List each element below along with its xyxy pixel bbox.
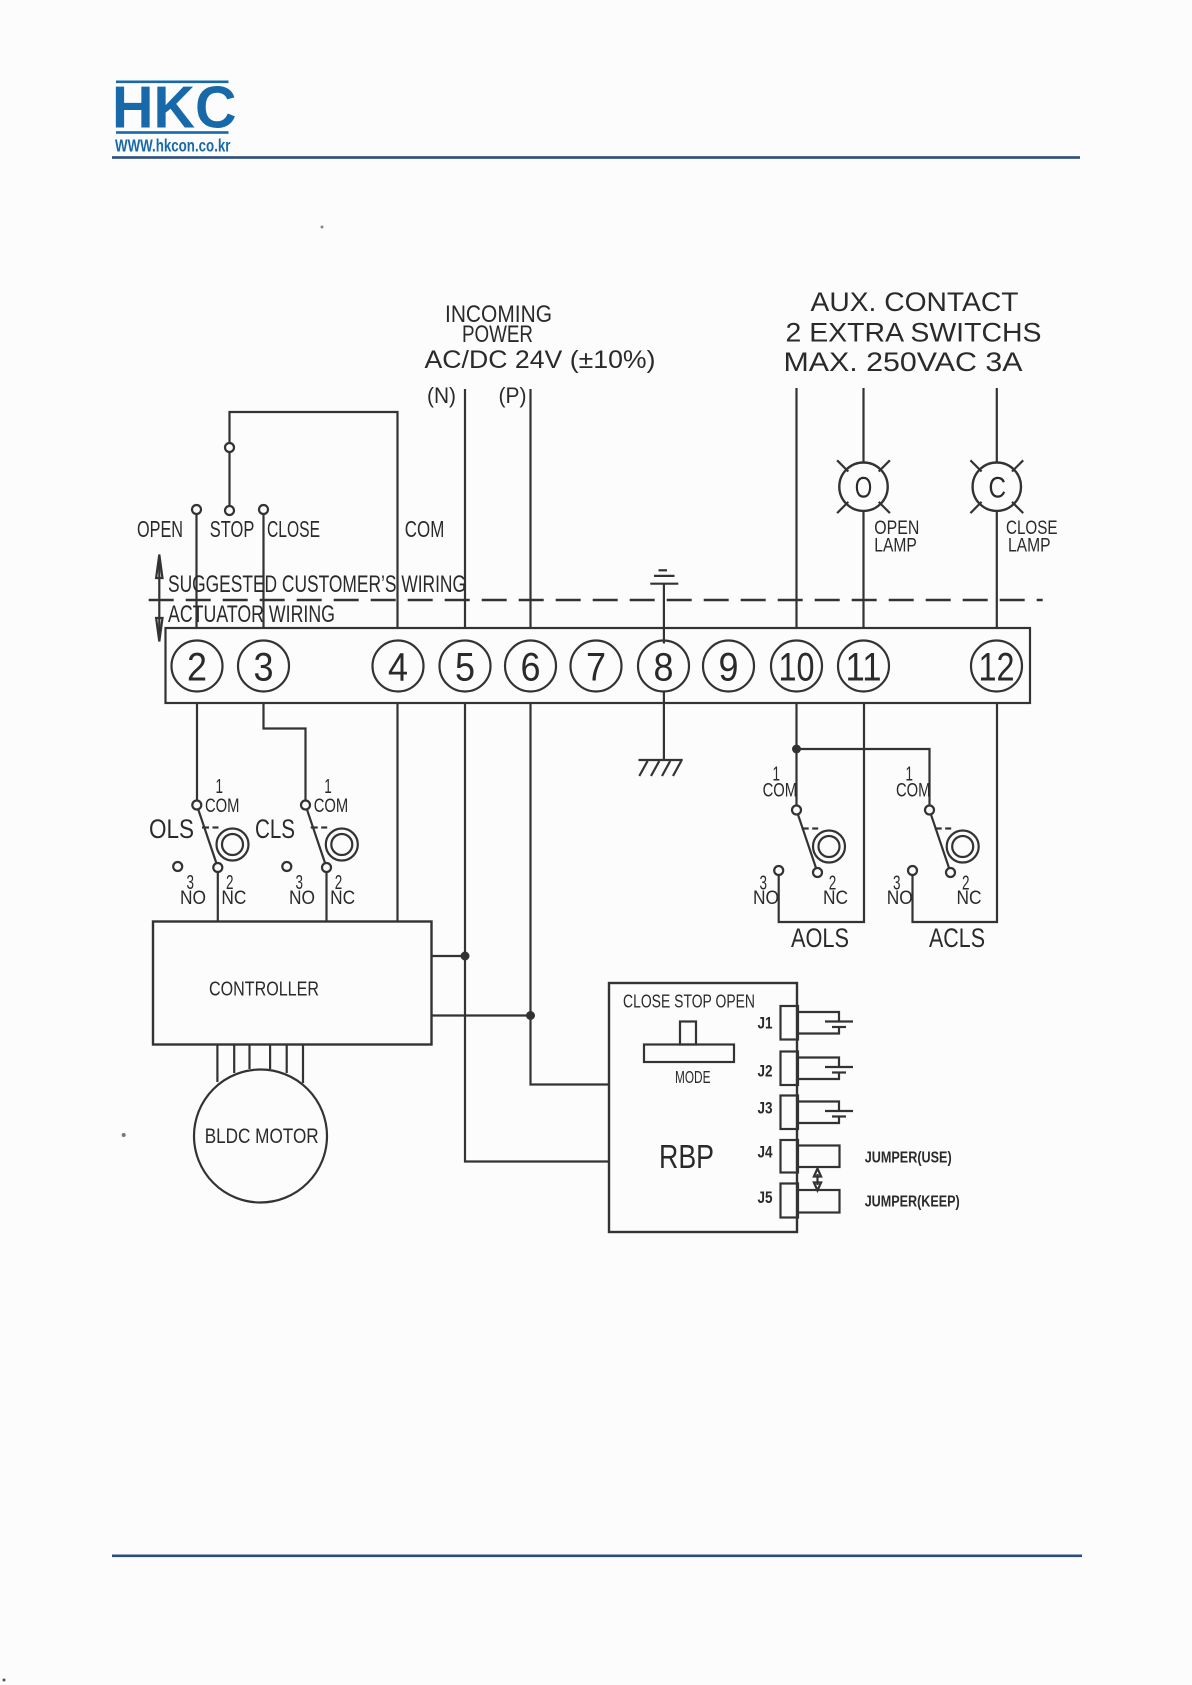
svg-text:JUMPER(KEEP): JUMPER(KEEP) [865, 1194, 960, 1211]
svg-text:OPEN: OPEN [137, 516, 183, 542]
connector J4 header [781, 1140, 799, 1173]
ground earth symbol above terminal 8 [650, 570, 678, 643]
terminal 5 [440, 641, 491, 692]
logo top rule [116, 81, 229, 84]
svg-text:J4: J4 [758, 1142, 773, 1161]
logo bottom rule [116, 131, 229, 134]
node junction N controller [462, 953, 469, 960]
jumper cap on J5 [798, 1190, 840, 1213]
connector J1 header [781, 1006, 799, 1040]
battery B2 on J2 [798, 1058, 853, 1080]
jumper move arrow [814, 1169, 821, 1191]
label OLS pins [180, 776, 246, 909]
wire terminal 8 to chassis ground [663, 692, 665, 760]
svg-text:COM: COM [405, 516, 445, 542]
svg-text:SUGGESTED CUSTOMER’S WIRING: SUGGESTED CUSTOMER’S WIRING [168, 571, 466, 598]
svg-text:ACTUATOR WIRING: ACTUATOR WIRING [168, 601, 335, 628]
svg-text:3: 3 [254, 646, 274, 690]
wire OPEN to terminal 2 [195, 514, 197, 629]
wire terminal 5 (N) down to RBP [465, 703, 609, 1162]
svg-text:5: 5 [455, 646, 475, 690]
svg-text:MAX. 250VAC 3A: MAX. 250VAC 3A [784, 347, 1023, 377]
battery B3 on J3 [798, 1102, 853, 1124]
svg-text:6: 6 [521, 646, 541, 690]
wire aux to open lamp [862, 388, 864, 463]
switch STOP lower contact [225, 506, 234, 515]
terminal 8 [638, 641, 689, 692]
svg-text:BLDC MOTOR: BLDC MOTOR [205, 1125, 319, 1148]
page bottom rule [112, 1555, 1082, 1558]
svg-text:2: 2 [187, 646, 207, 690]
page top rule [112, 156, 1080, 159]
terminal 4 [373, 641, 424, 692]
svg-text:11: 11 [846, 646, 882, 690]
label CLOSE LAMP [1006, 518, 1058, 557]
wire junction to ACLS COM [797, 749, 930, 806]
wire controller to P junction [432, 1014, 531, 1016]
wire terminal 3 to CLS COM [264, 703, 306, 801]
node OPEN pushbutton contact [192, 505, 201, 514]
svg-text:4: 4 [388, 646, 408, 690]
svg-text:NC: NC [957, 887, 982, 909]
svg-text:NC: NC [221, 887, 246, 909]
node junction P controller [527, 1012, 534, 1019]
wire CLOSE to terminal 3 [262, 514, 264, 629]
connector J3 header [781, 1096, 799, 1130]
connector J2 header [781, 1052, 799, 1086]
svg-text:RBP: RBP [659, 1139, 714, 1176]
terminal 10 [771, 641, 822, 692]
wire terminal 2 to OLS COM [196, 703, 198, 801]
svg-text:2 EXTRA SWITCHS: 2 EXTRA SWITCHS [786, 318, 1042, 348]
label AUX CONTACT heading [784, 287, 1042, 377]
terminal 11 [838, 641, 889, 692]
node junction AOLS [793, 746, 800, 753]
controller U1 box [153, 922, 432, 1045]
wire top horizontal customer bus [230, 412, 398, 629]
svg-text:AUX. CONTACT: AUX. CONTACT [811, 287, 1019, 317]
wire close lamp to terminal 12 [996, 511, 998, 629]
svg-text:JUMPER(USE): JUMPER(USE) [865, 1150, 952, 1167]
svg-text:O: O [855, 472, 873, 505]
svg-text:MODE: MODE [675, 1067, 711, 1087]
wire OLS NC to controller [217, 872, 219, 923]
wire terminal 4 to controller [396, 703, 398, 923]
svg-text:ACLS: ACLS [929, 923, 985, 953]
svg-text:AOLS: AOLS [791, 923, 849, 953]
svg-text:J3: J3 [758, 1098, 773, 1117]
svg-text:OLS: OLS [149, 814, 194, 844]
wire (N) to terminal 5 [464, 389, 466, 629]
wire aux to close lamp [996, 388, 998, 463]
lamp OPEN LAMP [837, 460, 890, 513]
wire controller to motor leads [217, 1045, 303, 1084]
terminal 12 [971, 641, 1022, 692]
module RBP box [609, 983, 797, 1232]
terminal 9 [703, 641, 754, 692]
label CLS pins [289, 776, 355, 909]
svg-text:COM: COM [205, 795, 240, 817]
svg-text:7: 7 [586, 646, 606, 690]
lamp CLOSE LAMP [970, 460, 1023, 513]
svg-text:(P): (P) [499, 383, 527, 408]
svg-text:NC: NC [330, 887, 355, 909]
svg-text:10: 10 [779, 646, 815, 690]
terminal 6 [505, 641, 556, 692]
svg-text:CLS: CLS [255, 814, 295, 844]
speck left margin [122, 1133, 126, 1137]
svg-text:LAMP: LAMP [874, 536, 917, 557]
wire aux contact to terminal 10 [795, 388, 797, 629]
svg-text:LAMP: LAMP [1008, 536, 1051, 557]
svg-text:J2: J2 [758, 1061, 773, 1080]
svg-text:COM: COM [314, 795, 349, 817]
label INCOMING POWER heading [425, 301, 656, 374]
speck upper area [321, 226, 324, 229]
battery B1 on J1 [798, 1012, 853, 1034]
limit switch CLS [282, 801, 358, 873]
wire ACLS NO to terminal 12 [913, 703, 998, 922]
svg-text:NC: NC [823, 887, 848, 909]
svg-text:COM: COM [896, 780, 931, 802]
svg-text:AC/DC 24V (±10%): AC/DC 24V (±10%) [425, 346, 656, 374]
wire dashed wiring boundary [149, 599, 1043, 601]
label AOLS pins [753, 764, 848, 909]
svg-text:HKC: HKC [112, 75, 237, 141]
svg-text:CONTROLLER: CONTROLLER [209, 979, 319, 1001]
switch MODE selector [644, 1022, 734, 1063]
svg-text:12: 12 [979, 646, 1015, 690]
wire controller to N junction [432, 955, 466, 957]
terminal 3 [238, 641, 289, 692]
svg-text:WWW.hkcon.co.kr: WWW.hkcon.co.kr [115, 135, 231, 155]
svg-text:COM: COM [763, 780, 798, 802]
switch STOP blade [228, 452, 230, 506]
svg-text:J5: J5 [758, 1188, 773, 1207]
svg-text:8: 8 [654, 646, 674, 690]
speck bottom left [3, 1679, 6, 1682]
aux switch ACLS [908, 806, 979, 878]
wire (P) to terminal 6 [529, 389, 531, 629]
terminal strip box [166, 628, 1031, 703]
label ACLS pins [887, 764, 982, 909]
boundary double arrow [156, 555, 162, 642]
terminal 7 [571, 641, 622, 692]
svg-text:NO: NO [289, 887, 315, 909]
limit switch OLS [173, 801, 248, 873]
wire open lamp to terminal 11 [862, 511, 864, 629]
svg-text:NO: NO [180, 887, 206, 909]
terminal 2 [172, 641, 223, 692]
connector J5 header [781, 1184, 799, 1218]
wire AOLS NO to terminal 11 [779, 703, 864, 922]
svg-text:9: 9 [719, 646, 739, 690]
svg-text:CLOSE: CLOSE [267, 516, 320, 542]
motor M1 BLDC [194, 1070, 327, 1203]
wire terminal 10 to AOLS COM [795, 703, 797, 806]
label OPEN LAMP [874, 518, 919, 557]
svg-text:(N): (N) [427, 383, 456, 408]
svg-text:J1: J1 [758, 1014, 773, 1033]
ground chassis symbol [639, 760, 683, 776]
svg-text:STOP: STOP [210, 516, 255, 542]
svg-text:CLOSE STOP OPEN: CLOSE STOP OPEN [623, 992, 755, 1012]
svg-text:NO: NO [887, 887, 913, 909]
wire CLS NC to controller [325, 872, 327, 923]
svg-text:NO: NO [753, 887, 779, 909]
switch STOP upper contact [225, 443, 234, 452]
svg-text:POWER: POWER [462, 321, 533, 348]
jumper cap on J4 [798, 1146, 840, 1168]
wire terminal 6 (P) down to RBP [531, 703, 610, 1085]
svg-text:C: C [989, 472, 1007, 505]
node CLOSE pushbutton contact [259, 505, 268, 514]
aux switch AOLS [774, 806, 845, 878]
